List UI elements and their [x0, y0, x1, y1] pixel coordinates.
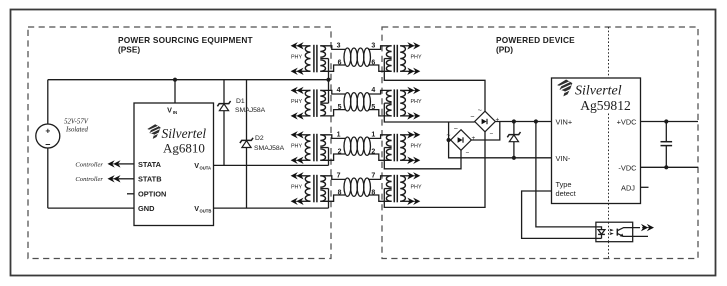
svg-text:V: V — [194, 204, 199, 213]
transformer T1 left (PSE side) — [291, 42, 345, 75]
PSE title label — [118, 35, 253, 54]
svg-text:Ag6810: Ag6810 — [163, 140, 205, 155]
wire: source - to GND line — [47, 148, 49, 208]
wire: VIN drop from bus to U1 — [174, 80, 176, 103]
cable pair 1/2 twisted coil — [344, 137, 370, 155]
logo: Silvertel (U2) — [557, 80, 572, 97]
svg-text:4: 4 — [371, 87, 375, 94]
svg-text:ADJ: ADJ — [621, 183, 635, 192]
wire: row4 right tap to BR1 bottom — [384, 132, 485, 208]
svg-text:+: + — [45, 126, 50, 136]
transformer T1 right (PD side) — [368, 42, 420, 75]
svg-text:VIN+: VIN+ — [556, 118, 573, 127]
diode D1 TVS SMAJ58A — [223, 80, 225, 104]
svg-text:3: 3 — [337, 42, 341, 49]
wire: branch down to BR2 left input — [448, 122, 450, 140]
isolation barrier dotted line (below U2) — [608, 204, 610, 223]
svg-text:OPTION: OPTION — [138, 190, 166, 199]
svg-text:8: 8 — [338, 189, 342, 196]
isolation barrier dotted line (above U2) — [608, 27, 610, 78]
svg-text:PHY: PHY — [410, 99, 421, 105]
svg-text:D1: D1 — [236, 98, 245, 105]
svg-text:5: 5 — [371, 104, 375, 111]
opto phototransistor — [616, 229, 618, 236]
svg-text:-VDC: -VDC — [618, 163, 637, 172]
svg-text:PHY: PHY — [291, 184, 302, 190]
svg-text:OUTA: OUTA — [200, 166, 212, 171]
node: D3 top junction dot — [512, 119, 516, 123]
opto LED — [596, 227, 602, 230]
svg-text:D2: D2 — [255, 135, 264, 142]
svg-text:OUTB: OUTB — [200, 208, 212, 213]
arrow: STATB to controller — [108, 175, 121, 182]
svg-text:5: 5 — [338, 104, 342, 111]
svg-text:PHY: PHY — [410, 143, 421, 149]
bridge rectifier BR2 — [446, 126, 475, 157]
isolation barrier dotted line (through OC1) — [608, 222, 610, 242]
wire: row3 left tap down to VOUTA — [328, 148, 330, 166]
node: opto feed junction dot — [534, 119, 538, 123]
opto light arrows — [609, 229, 614, 232]
bridge rectifier BR1 — [470, 107, 499, 138]
svg-text:2: 2 — [338, 148, 342, 155]
transformer T4 left (PSE side) — [291, 172, 345, 205]
capacitor C1 across VDC — [665, 122, 667, 142]
svg-text:7: 7 — [337, 172, 341, 179]
svg-text:Controller: Controller — [75, 176, 103, 183]
transformer T3 right (PD side) — [368, 131, 420, 164]
svg-text:Controller: Controller — [75, 161, 103, 168]
wire: STATB stub — [119, 178, 134, 180]
svg-text:Type: Type — [556, 180, 572, 189]
diode D3 TVS at PD input — [513, 122, 515, 135]
svg-text:GND: GND — [138, 204, 155, 213]
arrow: STATA to controller — [108, 160, 121, 167]
wire: +VDC output line — [641, 121, 699, 123]
cable pair 3/6 twisted coil — [344, 48, 370, 66]
transformer T2 left (PSE side) — [291, 87, 345, 120]
node: PSE bus / row1-row2 tap junction dot — [326, 78, 330, 82]
svg-text:Silvertel: Silvertel — [575, 84, 622, 99]
wire: row1 right tap to bridge BR1 top — [384, 59, 485, 112]
isolation barrier dotted line (inside U2) — [608, 114, 610, 204]
svg-text:3: 3 — [371, 42, 375, 49]
op-amp U2 Ag59812 PD module — [552, 78, 641, 204]
svg-text:6: 6 — [338, 59, 342, 66]
wire: VOUTA line U1 to row3 tap — [214, 164, 329, 166]
transformer T3 left (PSE side) — [291, 131, 345, 164]
svg-text:1: 1 — [371, 131, 375, 138]
svg-text:V: V — [167, 106, 172, 115]
svg-text:Isolated: Isolated — [65, 127, 88, 134]
svg-text:+VDC: +VDC — [617, 118, 638, 127]
wire: row3 right tap to BR2 bottom — [384, 148, 461, 169]
transformer T2 right (PD side) — [368, 87, 420, 120]
svg-text:PHY: PHY — [291, 54, 302, 60]
optocoupler OC1 — [596, 222, 633, 242]
wire: Type detect to opto LED cathode — [522, 191, 596, 238]
svg-text:1: 1 — [337, 131, 341, 138]
svg-text:4: 4 — [337, 87, 341, 94]
svg-text:VIN-: VIN- — [556, 154, 571, 163]
svg-text:SMAJ58A: SMAJ58A — [254, 145, 285, 152]
wire: row2 left tap up to bus — [328, 80, 330, 103]
wire: row4 left tap down to VOUTB — [328, 189, 330, 209]
wire: OPTION stub — [127, 193, 134, 195]
svg-text:(PD): (PD) — [496, 44, 513, 54]
node: C1 bottom junction dot — [664, 165, 668, 169]
svg-text:PHY: PHY — [291, 99, 302, 105]
wire: -VDC output line — [641, 166, 699, 168]
arrow: opto output — [641, 224, 654, 231]
wire: row1 left tap down to bus — [328, 59, 330, 80]
svg-text:SMAJ58A: SMAJ58A — [235, 107, 266, 114]
node: BR2 left input junction dot — [447, 138, 451, 142]
svg-text:Ag59812: Ag59812 — [580, 98, 631, 113]
cable pair 4/5 twisted coil — [344, 93, 370, 111]
wire: source + to bus — [47, 80, 49, 124]
svg-text:8: 8 — [371, 189, 375, 196]
wire: VIN+ to opto LED anode — [536, 122, 596, 227]
diode D2 TVS SMAJ58A — [246, 80, 248, 141]
wire: GND line to U1 — [48, 207, 134, 209]
node: C1 top junction dot — [664, 119, 668, 123]
svg-text:detect: detect — [556, 189, 576, 198]
svg-text:6: 6 — [371, 59, 375, 66]
wire: VOUTB line U1 to row4 tap — [214, 207, 329, 209]
wire: BR2 left stair to VIN- line — [449, 140, 461, 158]
svg-text:PHY: PHY — [410, 54, 421, 60]
voltage source V1 52V-57V — [36, 124, 60, 148]
logo: Silvertel (U1) — [147, 124, 160, 139]
PSE dashed boundary box — [28, 27, 331, 259]
wire: VIN+ line BR1 + to U2 — [495, 121, 551, 123]
wire: BR2 + output up to VIN+ line — [471, 122, 500, 141]
svg-text:Silvertel: Silvertel — [162, 126, 207, 141]
node: VIN junction dot — [173, 78, 177, 82]
svg-text:V: V — [194, 161, 199, 170]
svg-text:IN: IN — [173, 110, 177, 115]
wire: row2 right tap to BR1 left input — [384, 103, 474, 122]
wire: PSE V+ top bus — [48, 79, 329, 81]
svg-text:52V-57V: 52V-57V — [64, 119, 89, 126]
svg-text:2: 2 — [371, 148, 375, 155]
svg-text:PHY: PHY — [410, 184, 421, 190]
node: D3 bottom junction dot — [512, 156, 516, 160]
transformer T4 right (PD side) — [368, 172, 420, 205]
svg-text:PHY: PHY — [291, 143, 302, 149]
wire: ADJ stub — [641, 186, 649, 188]
PD dashed boundary box — [382, 27, 698, 259]
svg-text:STATA: STATA — [138, 160, 162, 169]
svg-text:7: 7 — [371, 172, 375, 179]
cable pair 7/8 twisted coil — [344, 178, 370, 196]
wire: STATA stub — [119, 163, 134, 165]
PD title label — [496, 35, 575, 54]
svg-text:(PSE): (PSE) — [118, 44, 140, 54]
wire: VIN- line to U2 — [461, 157, 552, 159]
op-amp U1 Ag6810 PSE controller — [134, 103, 214, 226]
svg-text:STATB: STATB — [138, 175, 162, 184]
